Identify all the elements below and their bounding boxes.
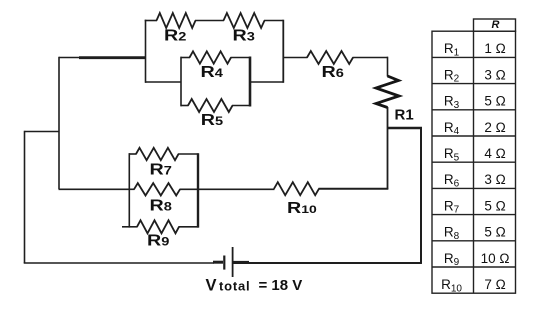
svg-text:3 Ω: 3 Ω — [484, 172, 505, 187]
svg-text:2 Ω: 2 Ω — [484, 120, 505, 135]
wire: input to top group — [59, 57, 146, 59]
label R9 — [147, 232, 169, 249]
resistor R1 — [376, 76, 399, 108]
label R6 — [322, 63, 344, 80]
table row R8 — [444, 225, 506, 242]
svg-text:R5: R5 — [444, 146, 460, 163]
svg-text:4 Ω: 4 Ω — [484, 146, 505, 161]
resistor R9 — [137, 220, 179, 233]
wire: top group left vertical — [145, 20, 147, 83]
svg-text:R10: R10 — [287, 199, 317, 216]
svg-text:R9: R9 — [147, 232, 169, 249]
svg-text:R: R — [492, 19, 500, 31]
wire: R1 output to right vertical — [388, 127, 423, 129]
svg-text:7 Ω: 7 Ω — [484, 277, 505, 292]
svg-text:R3: R3 — [444, 94, 460, 111]
wire: right outer vertical — [420, 128, 422, 264]
svg-text:R4: R4 — [201, 63, 224, 80]
svg-text:R3: R3 — [233, 26, 255, 43]
resistor R4 — [190, 51, 232, 63]
svg-text:R7: R7 — [444, 198, 460, 215]
label R5 — [201, 111, 223, 128]
wire: R1 top lead — [387, 57, 389, 77]
wire: battery left riser link — [25, 131, 60, 133]
wire: outer left vertical — [24, 131, 26, 263]
wire: R4 branch leads — [181, 57, 251, 59]
wire: R4R5 right vertical — [249, 57, 252, 107]
table row R7 — [444, 198, 506, 215]
svg-text:R1: R1 — [395, 107, 414, 124]
wire: top branch leads R2/R3 — [145, 20, 284, 22]
wire: R6 leads — [283, 57, 388, 59]
svg-text:10 Ω: 10 Ω — [481, 251, 510, 266]
resistor R7 — [136, 148, 179, 160]
table row R6 — [444, 172, 506, 189]
svg-text:R7: R7 — [150, 161, 172, 178]
svg-text:R8: R8 — [444, 225, 460, 242]
wire: bottom rail right of battery — [234, 262, 422, 264]
resistor R2 — [157, 13, 196, 28]
svg-text:= 18 V: = 18 V — [259, 277, 303, 294]
wire: R5 branch leads — [181, 105, 251, 107]
label R7 — [150, 161, 172, 178]
resistor R5 — [188, 99, 233, 112]
svg-text:5 Ω: 5 Ω — [484, 225, 505, 240]
wire: R1 bottom lead — [387, 107, 389, 189]
table row R4 — [444, 120, 506, 137]
wire: R4R5 left vertical — [180, 57, 182, 107]
svg-text:1 Ω: 1 Ω — [484, 41, 505, 56]
svg-text:Vtotal: Vtotal — [206, 277, 251, 295]
svg-text:R8: R8 — [150, 197, 172, 214]
label R2 — [164, 26, 186, 43]
wire: R7 leads — [129, 153, 199, 155]
resistor R10 — [274, 182, 319, 195]
table row R2 — [444, 67, 506, 84]
label R3 — [233, 26, 255, 43]
label R8 — [150, 197, 172, 214]
wire: R8 leads — [129, 188, 199, 190]
table row R9 — [444, 251, 510, 268]
wire: mid link to R4R5 block — [145, 81, 284, 83]
svg-text:R2: R2 — [164, 26, 186, 43]
svg-text:R6: R6 — [322, 63, 344, 80]
resistor R3 — [224, 13, 265, 28]
svg-text:R2: R2 — [444, 67, 460, 84]
svg-text:5 Ω: 5 Ω — [484, 94, 505, 109]
svg-text:R10: R10 — [441, 277, 462, 294]
table row R1 — [444, 41, 506, 58]
svg-text:R6: R6 — [444, 172, 460, 189]
table row R3 — [444, 94, 506, 111]
label R10 — [287, 199, 317, 216]
svg-text:R4: R4 — [444, 120, 460, 137]
wire: bottom rail left of battery — [24, 262, 214, 264]
resistor R8 — [134, 183, 180, 195]
wire: R9 leads — [122, 226, 199, 228]
wire: top group right vertical — [282, 20, 284, 83]
svg-text:R1: R1 — [444, 41, 460, 58]
svg-text:3 Ω: 3 Ω — [484, 67, 505, 82]
table row R10 — [441, 277, 506, 294]
svg-text:R5: R5 — [201, 111, 223, 128]
label R4 — [201, 63, 224, 80]
wire: R7R8R9 right vertical — [197, 153, 199, 227]
table row R5 — [444, 146, 506, 163]
table: resistor values — [432, 19, 516, 293]
wire: R10 leads — [198, 188, 389, 191]
wire: input to bottom group — [59, 188, 130, 190]
svg-text:R9: R9 — [444, 251, 460, 268]
resistor R6 — [307, 51, 353, 64]
wire: R7R8R9 left vertical — [128, 153, 130, 227]
svg-text:5 Ω: 5 Ω — [484, 198, 505, 213]
wire: left node column vertical — [58, 57, 60, 189]
battery Vtotal — [213, 247, 249, 277]
